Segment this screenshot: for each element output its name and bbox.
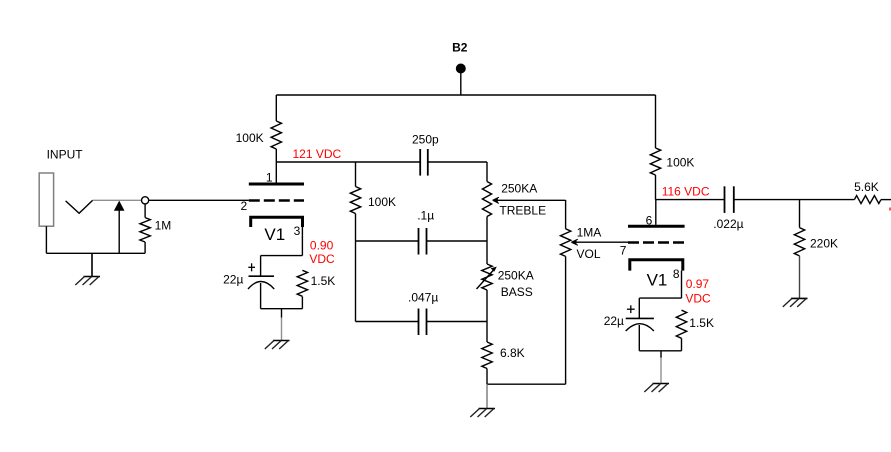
svg-text:0.97: 0.97 — [686, 277, 710, 291]
wire: .1u row — [356, 240, 419, 242]
wire: tone stack left rail — [355, 162, 357, 187]
resistor R 5.6K — [854, 196, 881, 204]
ground: V1b cathode — [660, 351, 662, 358]
svg-text:B2: B2 — [452, 41, 468, 55]
svg-text:VDC: VDC — [685, 291, 711, 305]
wire: 6.8K to bottom — [486, 369, 488, 385]
svg-text:BASS: BASS — [501, 285, 533, 299]
jack switch arrow — [118, 210, 120, 253]
wire: cathode V1b down — [681, 271, 683, 299]
wire: B2 stem — [460, 72, 462, 95]
ground: V1a cathode — [281, 309, 283, 318]
svg-text:0.90: 0.90 — [310, 239, 334, 253]
resistor R 100K plate V1a — [275, 95, 277, 121]
capacitor C 22u (V1b bypass) — [638, 298, 640, 318]
wire: left rail continues — [355, 214, 357, 322]
svg-text:VDC: VDC — [309, 252, 335, 266]
wire: 116VDC node right — [656, 199, 725, 201]
svg-text:2: 2 — [241, 199, 248, 213]
svg-text:250KA: 250KA — [501, 182, 537, 196]
ground: tone stack — [486, 384, 488, 408]
resistor R 6.8K — [482, 342, 492, 369]
svg-text:121 VDC: 121 VDC — [293, 147, 342, 161]
jack J1 body — [39, 173, 53, 226]
svg-text:VOL: VOL — [577, 247, 601, 261]
wire: output to edge — [881, 199, 891, 201]
resistor R 100K plate V1b — [655, 95, 657, 148]
capacitor C .047u — [418, 309, 420, 336]
node B2 terminal — [456, 64, 466, 74]
svg-text:INPUT: INPUT — [47, 148, 84, 162]
triode V1b plate — [628, 225, 685, 228]
resistor R 1.5K (V1a cathode) — [297, 270, 307, 296]
svg-text:V1: V1 — [647, 271, 668, 290]
wire: B+ rail — [276, 94, 655, 96]
wire: cathode V1a down — [301, 227, 303, 256]
svg-text:1.5K: 1.5K — [311, 274, 336, 288]
svg-text:1MA: 1MA — [577, 226, 602, 240]
svg-text:116 VDC: 116 VDC — [662, 185, 710, 199]
capacitor C 22u (V1a bypass) — [260, 256, 262, 277]
svg-text:250p: 250p — [412, 133, 439, 147]
jack tip contact — [66, 200, 93, 213]
svg-text:1M: 1M — [155, 219, 172, 233]
resistor R 100K (tone slope) — [350, 187, 360, 214]
wire: grid input — [149, 199, 249, 201]
svg-text:1: 1 — [266, 171, 273, 185]
triode V1a cathode — [251, 217, 303, 227]
vol wiper — [574, 241, 629, 243]
wire: mid rail (treble-bass) — [486, 241, 488, 264]
wire: 121VDC node to tone stack — [276, 161, 420, 163]
svg-text:220K: 220K — [810, 237, 838, 251]
wire: .047u row — [356, 321, 419, 323]
svg-text:TREBLE: TREBLE — [499, 203, 546, 217]
svg-text:3: 3 — [294, 224, 301, 238]
svg-text:100K: 100K — [236, 131, 264, 145]
wire: RC2 top — [639, 297, 681, 299]
svg-text:22µ: 22µ — [223, 273, 243, 287]
svg-text:.022µ: .022µ — [713, 217, 743, 231]
ground: 220K — [799, 256, 801, 299]
wire: plate V1b up — [655, 200, 657, 225]
resistor R 220K — [799, 200, 801, 228]
svg-text:250KA: 250KA — [498, 269, 534, 283]
capacitor C .1u — [418, 228, 420, 255]
wire: jack tip to node (gray) — [93, 199, 142, 201]
triode V1a grid — [249, 199, 304, 202]
capacitor C 250p — [419, 149, 421, 176]
wire: RC1 bottom — [261, 308, 303, 310]
potentiometer BASS 250KA — [482, 264, 492, 290]
svg-text:.047µ: .047µ — [408, 291, 438, 305]
svg-text:6: 6 — [646, 214, 653, 228]
triode V1a plate — [249, 183, 304, 186]
ground: input — [91, 253, 93, 276]
wire: tone stack bottom — [487, 383, 566, 385]
svg-text:V1: V1 — [264, 225, 285, 244]
resistor R 1.5K (V1b cathode) — [676, 310, 686, 338]
svg-text:100K: 100K — [666, 155, 694, 169]
red text clipped at edge — [889, 208, 891, 211]
svg-text:1.5K: 1.5K — [689, 316, 714, 330]
potentiometer VOL 1MA — [565, 200, 567, 229]
wire: plate V1a — [275, 162, 277, 184]
triode V1b grid — [628, 241, 685, 244]
svg-text:8: 8 — [673, 267, 680, 281]
wire: coupling out — [734, 199, 855, 201]
label + (22u a) — [248, 266, 255, 268]
treble wiper — [495, 199, 566, 201]
potentiometer TREBLE 250KA — [486, 162, 488, 182]
svg-text:22µ: 22µ — [604, 314, 624, 328]
wire: RC1 top — [261, 255, 303, 257]
node: input terminal circle — [142, 197, 149, 204]
wire: RC2 bottom — [639, 350, 681, 352]
capacitor C .022u — [724, 186, 726, 213]
svg-text:.1µ: .1µ — [417, 209, 434, 223]
label + (22u b) — [627, 308, 635, 310]
wire: ground bus — [46, 252, 145, 254]
triode V1b cathode — [630, 260, 683, 271]
resistor R 1M — [144, 204, 146, 218]
wire: jack sleeve to ground bus — [45, 226, 47, 253]
svg-text:6.8K: 6.8K — [500, 346, 525, 360]
svg-text:5.6K: 5.6K — [854, 180, 879, 194]
svg-text:7: 7 — [620, 244, 627, 258]
wire: bass to 6.8K — [486, 290, 488, 342]
svg-text:100K: 100K — [368, 195, 396, 209]
